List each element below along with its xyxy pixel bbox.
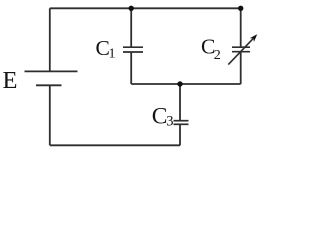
svg-text:2: 2 [214,48,221,63]
svg-text:1: 1 [109,47,116,62]
svg-text:E: E [3,67,18,94]
svg-text:C: C [152,103,168,129]
svg-text:3: 3 [166,113,173,129]
